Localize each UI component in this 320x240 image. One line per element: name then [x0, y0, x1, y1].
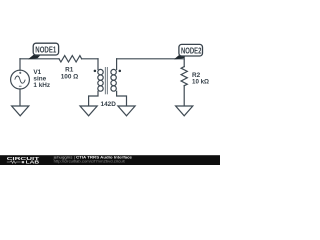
svg-text:LAB: LAB: [26, 160, 40, 165]
svg-text:10 kΩ: 10 kΩ: [192, 78, 209, 85]
ground under R2: [176, 106, 193, 116]
footer bar: [0, 155, 220, 165]
wire R2 top vertical: [183, 59, 185, 67]
CircuitLab logo node blob: [22, 161, 24, 163]
ground under transformer primary: [80, 106, 97, 116]
wire transformer primary top lead: [97, 59, 99, 70]
CircuitLab logo wave: [7, 161, 21, 164]
transformer core lines: [105, 67, 107, 94]
NODE2 flag pointer: [174, 54, 185, 59]
svg-text:NODE1: NODE1: [35, 46, 56, 55]
wire transformer secondary top lead: [116, 59, 118, 70]
V1 minus sign: [19, 85, 22, 87]
svg-text:NODE2: NODE2: [181, 47, 202, 56]
V1 sine symbol inside circle: [15, 76, 25, 83]
wire transformer primary bottom to ground: [89, 91, 98, 106]
resistor R2: [181, 67, 187, 86]
NODE1 flag pointer: [28, 54, 42, 59]
transformer T1 primary winding: [98, 69, 103, 74]
svg-text:100 Ω: 100 Ω: [61, 74, 79, 81]
wire top-left horizontal V1 to R1: [20, 58, 59, 60]
wire V1 bottom to ground: [19, 89, 21, 106]
transformer phase dot secondary: [119, 70, 122, 73]
svg-text:142D: 142D: [101, 101, 117, 108]
wire top-right horizontal secondary to R2: [117, 58, 185, 60]
svg-text:R1: R1: [65, 67, 74, 74]
NODE1 flag box: [33, 43, 58, 55]
wire transformer secondary bottom to ground: [117, 91, 127, 106]
svg-text:1 kHz: 1 kHz: [33, 82, 50, 89]
voltage source V1 circle: [11, 70, 30, 89]
ground under V1: [12, 106, 29, 116]
resistor R1: [59, 56, 82, 62]
svg-text:http://circuitlab.com/c/f7nm2b: http://circuitlab.com/c/f7nm2bvd.circuit: [54, 160, 125, 164]
wire V1 top vertical: [19, 59, 21, 70]
wire R2 bottom to ground: [183, 86, 185, 106]
transformer T1 secondary winding: [111, 69, 116, 74]
wire R1 to transformer primary: [82, 58, 98, 60]
V1 plus sign: [19, 72, 22, 86]
ground under transformer secondary: [118, 106, 135, 116]
transformer phase dot primary: [94, 70, 97, 73]
NODE2 flag box: [179, 44, 203, 56]
